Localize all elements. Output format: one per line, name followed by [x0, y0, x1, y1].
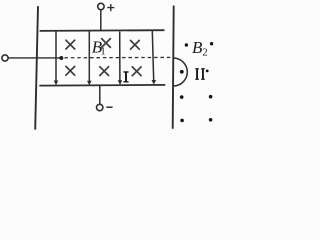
- svg-text:1: 1: [100, 46, 106, 58]
- svg-text:2: 2: [202, 47, 208, 59]
